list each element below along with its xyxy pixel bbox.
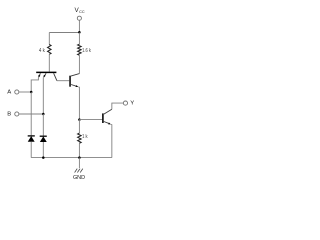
svg-text:1.6 k: 1.6 k [82,48,91,54]
wire: Q1 emitter2 drop to B line [42,78,44,115]
wire: D2 to ground rail [42,142,44,158]
wire: B to emitter2 [19,113,43,115]
node: D2 rail junction [42,156,45,159]
node: 1k rail junction [78,156,81,159]
wire: 1.6k to Q2 collector [78,55,80,73]
svg-text:A: A [7,90,11,96]
wire: A line down to diode D1 [30,92,32,135]
wire: 1k to ground rail [78,143,80,157]
svg-text:CC: CC [79,10,85,14]
wire: D1 to ground rail [30,142,32,158]
svg-text:Y: Y [130,101,134,107]
wire: top rail [49,32,79,34]
wire: Q1 emitter1 elbow to A line [31,78,38,92]
wire: 4k to Q1 base [48,54,50,71]
diode D2 (input clamp) [40,136,47,142]
wire: Q3 base wire [79,119,102,121]
wire: Q3 emitter down to ground rail [110,124,113,157]
wire: Q3 collector up to Y [112,103,123,109]
resistor R2 1.6k [78,44,92,55]
output terminal Y [123,101,134,107]
wire: Q2 emitter elbow and drop [78,87,79,120]
node: top junction [78,31,81,34]
wire: A to emitter1 [19,91,31,93]
transistor Q3 (output) [103,109,112,124]
input terminal B [7,112,19,118]
wire: left branch drop [48,33,50,45]
node: Q2 emitter / Q3 base junction [78,118,81,121]
transistor Q2 (phase splitter) [70,74,79,87]
diode D1 (input clamp) [28,136,35,142]
input terminal A [7,90,19,96]
svg-text:4 k: 4 k [39,48,45,54]
svg-text:B: B [7,112,11,118]
wire: Q1 collector to Q2 base [57,80,69,82]
svg-text:1 k: 1 k [82,134,88,140]
resistor R3 1k [78,133,88,143]
wire: Vcc stub [78,20,80,32]
wire: right branch drop [78,33,80,45]
wire: junction down to 1k [78,120,80,134]
Vcc power terminal [75,7,85,20]
ground symbol [73,158,85,181]
node: A junction [30,91,33,94]
node: B junction [42,113,45,116]
transistor Q1 (multi-emitter input) [36,72,57,80]
resistor R1 4k [39,45,51,55]
svg-text:GND: GND [73,175,85,181]
wire: ground rail [31,157,112,159]
wire: B line down to diode D2 [42,114,44,136]
